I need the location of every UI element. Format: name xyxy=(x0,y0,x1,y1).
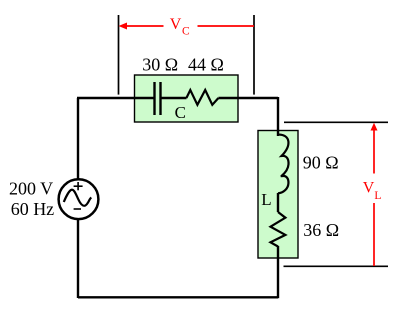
VL marker line bottom (black) xyxy=(284,265,389,267)
svg-text:44 Ω: 44 Ω xyxy=(188,55,224,75)
svg-text:V: V xyxy=(170,16,182,33)
wire bottom xyxy=(78,296,278,298)
VC red arrow line right segment xyxy=(198,25,255,27)
wire right upper (to inductor) xyxy=(277,97,279,136)
wire right mid (inductor to resistor) xyxy=(277,193,279,212)
svg-text:30 Ω: 30 Ω xyxy=(142,55,178,75)
voltage source sine wave xyxy=(64,190,92,206)
VL red arrow line upper segment xyxy=(373,129,375,174)
resistor 36 ohm (right branch zigzag) xyxy=(271,212,286,247)
VL red arrowhead (points up) xyxy=(371,123,378,131)
inductor cusp nub 2 xyxy=(281,175,285,178)
svg-text:60 Hz: 60 Hz xyxy=(11,199,55,219)
svg-text:C: C xyxy=(182,26,190,38)
svg-text:L: L xyxy=(374,190,381,202)
VL marker line top (black) xyxy=(284,121,388,123)
VC marker line left (black) xyxy=(118,15,120,95)
wire right lower (resistor to bottom) xyxy=(277,246,279,298)
inductor L (90 ohm coil) xyxy=(278,135,289,194)
svg-text:36 Ω: 36 Ω xyxy=(303,220,339,240)
VC red arrowhead (points left) xyxy=(119,23,128,30)
capacitor C (30 ohm) xyxy=(155,82,161,115)
svg-text:C: C xyxy=(175,103,186,122)
VC red arrow line left segment xyxy=(124,25,164,27)
voltage source plus sign xyxy=(74,182,83,190)
resistor 44 ohm (top branch zigzag) xyxy=(186,90,218,105)
inductor cusp nub 1 xyxy=(281,155,285,158)
VC marker line right (black) xyxy=(253,15,255,95)
svg-text:L: L xyxy=(261,190,271,209)
svg-text:200 V: 200 V xyxy=(9,179,53,199)
wire top mid segment (capacitor to resistor) xyxy=(162,97,187,99)
voltage source minus sign xyxy=(74,208,81,210)
highlight box L branch xyxy=(258,131,298,259)
highlight box C branch xyxy=(135,75,239,122)
VL red arrow line lower segment xyxy=(373,203,375,266)
wire top right segment xyxy=(218,97,278,99)
wire left (source branch) xyxy=(77,98,79,298)
svg-text:90 Ω: 90 Ω xyxy=(303,153,339,173)
voltage source V1 circle xyxy=(59,179,99,219)
svg-text:V: V xyxy=(363,180,375,197)
wire top left segment xyxy=(77,97,154,99)
